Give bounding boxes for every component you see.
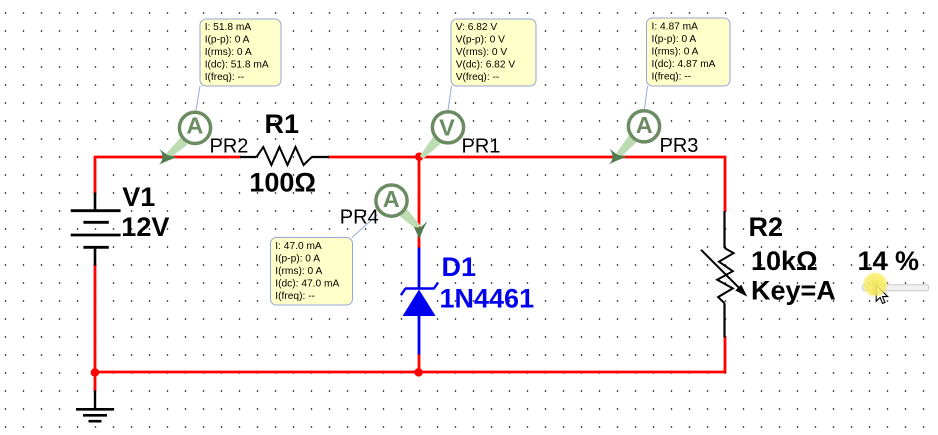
slider thumb	[872, 280, 879, 295]
wire: D1 anode lead down to bottom net	[418, 353, 421, 372]
svg-text:PR1: PR1	[462, 135, 501, 157]
probe PR3 ammeter circle	[628, 111, 659, 142]
label PR2	[210, 135, 249, 157]
battery V1	[71, 193, 121, 266]
wire: middle branch, node A down to D1 cathode lead	[418, 157, 421, 249]
label 14 % (potentiometer setting)	[858, 246, 920, 276]
svg-text:I(p-p): 0 A: I(p-p): 0 A	[275, 254, 320, 265]
tooltip PR4 measurements	[271, 238, 353, 306]
label V1	[122, 182, 155, 212]
slider track	[863, 285, 929, 291]
probe PR4 arrowhead	[414, 221, 427, 239]
svg-text:I(rms): 0 A: I(rms): 0 A	[275, 266, 322, 277]
label PR4	[340, 207, 379, 229]
tooltip PR3 measurements	[647, 18, 731, 86]
tooltip PR1 measurements	[451, 19, 536, 86]
svg-text:V1: V1	[122, 182, 155, 212]
mouse cursor	[876, 285, 888, 303]
probe PR3 arrowhead	[609, 149, 627, 165]
wire: top net, R1 right lead to node A	[328, 156, 419, 159]
svg-text:I(freq): --: I(freq): --	[275, 291, 315, 302]
wire: bottom net, D1 node to R2 bottom	[419, 336, 725, 372]
svg-text:I(rms): 0 A: I(rms): 0 A	[652, 47, 699, 58]
label 10kΩ	[751, 246, 818, 276]
label 100Ω	[249, 168, 316, 198]
tooltip PR2 measurements	[200, 19, 281, 86]
resistor R1	[240, 147, 329, 165]
svg-text:PR4: PR4	[340, 207, 379, 229]
probe PR4 leader line	[352, 215, 378, 238]
svg-text:D1: D1	[442, 252, 477, 282]
potentiometer R2	[701, 211, 747, 338]
svg-text:I(freq): --: I(freq): --	[652, 72, 692, 83]
slider thumb glow	[863, 272, 889, 298]
probe PR1 pointer	[420, 137, 441, 159]
svg-text:A: A	[636, 112, 653, 138]
svg-text:1N4461: 1N4461	[440, 284, 535, 314]
svg-text:10kΩ: 10kΩ	[751, 246, 818, 276]
svg-text:PR2: PR2	[210, 135, 249, 157]
svg-text:V(rms): 0 V: V(rms): 0 V	[456, 47, 508, 58]
junction node (bottom, at D1 branch)	[414, 368, 423, 377]
wire: top net, V1 corner to R1 left lead	[95, 156, 241, 159]
svg-text:V: 6.82 V: V: 6.82 V	[456, 22, 498, 33]
label R1	[265, 109, 300, 139]
svg-text:14 %: 14 %	[858, 246, 920, 276]
probe PR2 arrow shaft	[166, 138, 188, 159]
wire: left branch vertical (top, into V1)	[94, 156, 97, 194]
svg-text:V(p-p): 0 V: V(p-p): 0 V	[456, 35, 505, 46]
probe PR2 ammeter circle	[179, 112, 210, 143]
probe PR3 leader line	[645, 86, 648, 109]
svg-text:I(freq): --: I(freq): --	[205, 72, 245, 83]
label D1	[442, 252, 477, 282]
probe PR2 arrowhead	[159, 149, 177, 165]
svg-text:100Ω: 100Ω	[249, 168, 316, 198]
label Key=A	[751, 276, 836, 306]
junction node A (top, at D1 branch)	[415, 152, 424, 161]
zener diode D1	[401, 248, 438, 355]
svg-text:I(p-p): 0 A: I(p-p): 0 A	[652, 34, 697, 45]
svg-text:12V: 12V	[121, 212, 169, 242]
label R2	[749, 212, 784, 242]
svg-text:I: 51.8 mA: I: 51.8 mA	[205, 22, 252, 33]
svg-text:A: A	[383, 186, 400, 212]
svg-text:Key=A: Key=A	[751, 276, 836, 306]
svg-text:V(dc): 6.82 V: V(dc): 6.82 V	[456, 60, 516, 71]
label 1N4461	[440, 284, 535, 314]
svg-text:I(p-p): 0 A: I(p-p): 0 A	[205, 35, 250, 46]
svg-text:I: 4.87 mA: I: 4.87 mA	[652, 22, 699, 33]
svg-text:V(freq): --: V(freq): --	[456, 72, 500, 83]
probe PR1 leader line	[448, 86, 452, 110]
junction node (bottom left, at ground)	[91, 368, 100, 377]
probe PR4 arrow shaft	[400, 209, 421, 229]
svg-text:I: 47.0 mA: I: 47.0 mA	[275, 241, 322, 252]
label PR3	[660, 135, 699, 157]
svg-text:A: A	[186, 112, 203, 138]
wire: ground stub	[94, 372, 97, 392]
svg-text:PR3: PR3	[660, 135, 699, 157]
label PR1	[462, 135, 501, 157]
wire: bottom net, ground node to D1 node	[95, 371, 419, 374]
svg-text:V: V	[439, 114, 455, 140]
probe PR3 arrow shaft	[616, 136, 636, 158]
svg-text:R2: R2	[749, 212, 784, 242]
svg-text:R1: R1	[265, 109, 300, 139]
wire: top net, node A to R2 top	[419, 157, 725, 212]
probe PR2 leader line	[196, 86, 200, 111]
ground	[76, 391, 114, 422]
svg-text:I(rms): 0 A: I(rms): 0 A	[205, 47, 252, 58]
svg-text:I(dc): 51.8 mA: I(dc): 51.8 mA	[205, 60, 269, 71]
probe PR4 ammeter circle	[376, 185, 407, 216]
svg-text:I(dc): 4.87 mA: I(dc): 4.87 mA	[652, 59, 716, 70]
wire: left branch vertical (V1 to bottom node)	[94, 264, 97, 373]
svg-text:I(dc): 47.0 mA: I(dc): 47.0 mA	[275, 279, 339, 290]
label 12V	[121, 212, 169, 242]
probe PR1 voltmeter circle	[432, 112, 463, 143]
